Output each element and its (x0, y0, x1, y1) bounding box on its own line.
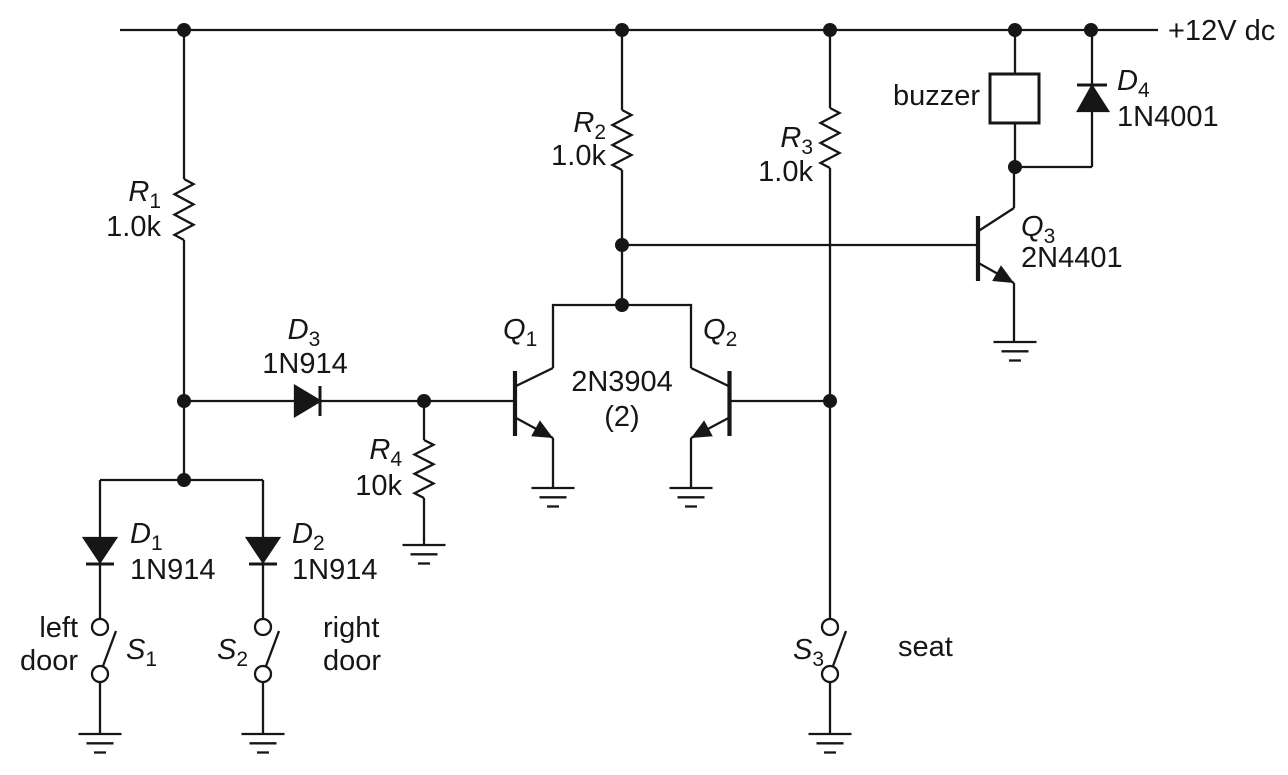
svg-text:1N4001: 1N4001 (1117, 101, 1219, 133)
transistor Q1 (515, 368, 553, 438)
wire D1 D2 horizontal (100, 479, 263, 481)
switch S1 (92, 619, 116, 682)
resistor R1 (175, 179, 194, 240)
node dot buzzer D4 collector (1008, 160, 1022, 174)
wire R4 bottom (423, 498, 425, 545)
wire buzzer bottom (1014, 123, 1016, 167)
svg-text:door: door (20, 645, 78, 677)
wire Q3 emitter (1013, 283, 1015, 342)
resistor R3 (821, 108, 840, 168)
svg-text:1.0k: 1.0k (758, 156, 813, 188)
switch S3 (822, 619, 846, 682)
wire S2 bottom (262, 682, 264, 734)
wire D4 to collector node (1015, 166, 1092, 168)
svg-text:Q2: Q2 (703, 314, 737, 351)
buzzer box (990, 74, 1039, 123)
svg-text:R4: R4 (369, 434, 402, 471)
transistor Q2 (691, 368, 730, 438)
node dot Q3 base (615, 238, 629, 252)
wire R3 top (829, 30, 831, 108)
wire R1 top (183, 30, 185, 179)
node dot rail D4 (1084, 23, 1098, 37)
svg-text:right: right (323, 612, 379, 644)
svg-text:1N914: 1N914 (130, 554, 215, 586)
wire D3 right (320, 400, 515, 402)
wire S1 bottom (99, 682, 101, 734)
svg-text:2N3904: 2N3904 (571, 366, 673, 398)
svg-text:2N4401: 2N4401 (1021, 242, 1123, 274)
wire Q2 emitter (690, 438, 692, 488)
svg-text:10k: 10k (355, 470, 402, 502)
svg-text:S1: S1 (126, 634, 157, 671)
node dot D1 D2 (177, 473, 191, 487)
svg-text:D1: D1 (130, 518, 163, 555)
wire Q1 emitter (552, 438, 554, 488)
diode D1 (84, 480, 116, 619)
wire buzzer top (1014, 30, 1016, 74)
wire collector tie Q1 Q2 (553, 305, 691, 368)
ground Q2 (670, 488, 713, 507)
resistor R2 (613, 110, 632, 170)
node dot R1 D3 (177, 394, 191, 408)
diode D3 (295, 386, 320, 416)
svg-text:seat: seat (898, 631, 953, 663)
svg-text:buzzer: buzzer (893, 80, 980, 112)
node dot rail R2 (615, 23, 629, 37)
node dot D3 R4 (417, 394, 431, 408)
switch S2 (255, 619, 279, 682)
svg-text:D3: D3 (288, 314, 321, 351)
wire Q3 collector (1013, 167, 1015, 208)
svg-text:left: left (39, 612, 78, 644)
wire R4 top (423, 401, 425, 440)
svg-text:1N914: 1N914 (292, 554, 377, 586)
node dot collector tie (615, 298, 629, 312)
ground R4 (403, 545, 446, 564)
transistor Q3 (978, 208, 1014, 283)
svg-text:R3: R3 (780, 122, 813, 159)
wire D4 top (1091, 30, 1093, 85)
svg-text:Q1: Q1 (503, 314, 537, 351)
svg-text:1.0k: 1.0k (106, 211, 161, 243)
node dot rail buzzer (1008, 23, 1022, 37)
wire Q2 base (729, 400, 831, 402)
svg-text:S2: S2 (217, 634, 248, 671)
svg-text:(2): (2) (604, 401, 639, 433)
wire +12V rail (120, 29, 1158, 31)
svg-text:D2: D2 (292, 518, 325, 555)
wire S3 bottom (829, 682, 831, 734)
ground S1 (79, 734, 122, 753)
svg-text:1N914: 1N914 (262, 348, 347, 380)
wire D3 left (184, 400, 295, 402)
ground S3 (809, 734, 852, 753)
ground Q1 (532, 488, 575, 507)
resistor R4 (415, 440, 434, 498)
node dot Q2 base R3 (823, 394, 837, 408)
ground Q3 (994, 342, 1037, 361)
wire base line to Q3 (622, 244, 976, 246)
wire node down from D3 junction (183, 401, 185, 480)
diode D2 (247, 480, 279, 619)
svg-text:D4: D4 (1117, 65, 1150, 102)
svg-text:door: door (323, 645, 381, 677)
node dot rail R1 (177, 23, 191, 37)
wire R1 bottom (183, 240, 185, 401)
svg-text:S3: S3 (793, 634, 824, 671)
svg-text:R1: R1 (128, 176, 161, 213)
svg-text:1.0k: 1.0k (551, 140, 606, 172)
wire R2 bottom (621, 170, 623, 305)
wire R2 top (621, 30, 623, 110)
node dot rail R3 (823, 23, 837, 37)
ground S2 (242, 734, 285, 753)
wire R3 bottom to S3 (829, 168, 831, 619)
svg-text:R2: R2 (573, 107, 606, 144)
svg-text:+12V dc: +12V dc (1168, 15, 1275, 47)
diode D4 (1077, 85, 1108, 167)
